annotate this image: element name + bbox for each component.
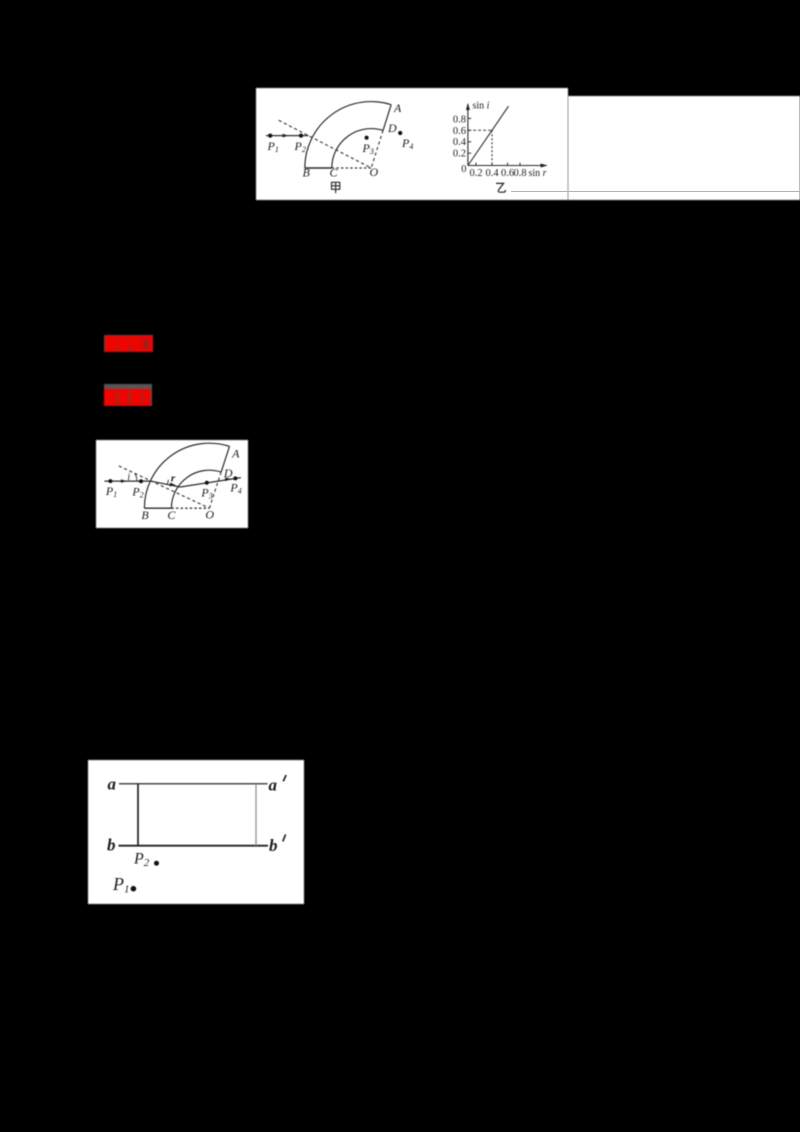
refracted ray E-F [150,481,179,487]
incident ray P1-P2-E [104,480,150,482]
figure 1 drawing [256,88,568,200]
edge B-C [305,167,332,169]
ray arrowhead [283,134,289,138]
line a-a' [119,782,267,784]
point P1 [268,134,272,138]
dashed C-O [332,167,371,169]
svg-text:C: C [330,166,339,180]
svg-text:P1: P1 [112,874,130,896]
outer arc B-A [144,443,229,508]
svg-text:P3: P3 [200,486,212,501]
dashed normal through P2 to O [279,120,372,168]
right vertical line [255,783,257,845]
angle arc r [167,480,168,485]
svg-text:B: B [141,508,149,522]
point P3 [204,481,208,485]
left vertical line [137,783,139,845]
dashed level 0.6 [468,129,492,131]
point P2 dot [154,860,159,865]
figure 3 drawing [88,760,304,904]
svg-text:0.8: 0.8 [513,168,526,179]
svg-text:0.4: 0.4 [485,168,499,179]
svg-text:D: D [387,121,397,135]
svg-text:P1: P1 [104,484,116,499]
point P3 [365,136,369,140]
svg-text:O: O [370,165,379,179]
svg-text:0.4: 0.4 [453,137,467,148]
svg-text:b: b [269,836,278,855]
edge B-C [144,507,171,509]
svg-text:D: D [222,466,232,480]
svg-text:a: a [268,775,277,794]
svg-text:P3: P3 [362,141,374,156]
point P4 [398,131,402,135]
dashed normal line through entry point to O [118,466,209,508]
svg-text:B: B [303,166,311,180]
svg-text:b: b [107,835,115,854]
svg-text:0.2: 0.2 [453,149,466,160]
乙 caption glyph [496,183,505,192]
white figure panel (right, blank continuation) [568,96,800,200]
inner arc C-D [332,129,383,168]
red highlighted 【解析】 block [104,384,152,407]
svg-text:0: 0 [461,164,466,175]
svg-text:P2: P2 [294,139,306,154]
ray P1-P2 [266,135,308,137]
svg-text:P4: P4 [229,481,241,496]
figure 2 white panel [96,440,248,527]
dashed C-O [171,507,209,509]
faint answer underline [511,191,800,192]
x ticks [476,163,520,166]
svg-text:r: r [170,473,175,485]
outer arc B-A [305,102,391,168]
line b-b' [119,844,268,846]
svg-text:i: i [127,472,130,483]
figure 2 drawing [96,440,248,527]
svg-text:a: a [108,774,117,793]
white figure panel (left, contains 甲 prism figure and 乙 graph) [256,88,568,200]
svg-text:O: O [205,508,214,522]
svg-text:0.2: 0.2 [469,168,482,179]
dashed D-O [209,472,221,508]
point P4 [233,477,237,481]
point P1 dot [131,886,137,892]
angle arc i [134,474,136,482]
point P2 [139,480,143,484]
figure 3 white panel [88,760,304,904]
svg-text:P2: P2 [133,850,150,868]
graph y axis [467,104,469,166]
red highlighted 【答案】 block [104,335,154,353]
svg-text:sin i: sin i [473,101,490,112]
svg-text:C: C [167,508,176,522]
graph x axis [468,165,547,167]
svg-text:P4: P4 [401,136,413,151]
point P1 [108,479,112,483]
svg-text:A: A [231,447,240,461]
svg-text:P1: P1 [267,139,279,154]
graph line [468,106,509,165]
甲 caption glyph [332,182,340,193]
svg-text:0.8: 0.8 [453,114,466,125]
edge A-D [221,447,229,473]
svg-text:0.6: 0.6 [501,168,514,179]
edge A-D [383,105,391,131]
svg-text:0.6: 0.6 [453,126,466,137]
inner arc C-D [171,470,221,508]
chord ray F-P3-D-P4 [180,478,241,487]
svg-text:sin r: sin r [529,168,547,179]
point P2 [299,134,303,138]
svg-text:P2: P2 [131,485,143,500]
dashed vertical 0.4 [491,130,493,165]
dashed D-O [371,130,383,168]
y ticks [468,118,471,153]
svg-text:A: A [393,101,402,115]
